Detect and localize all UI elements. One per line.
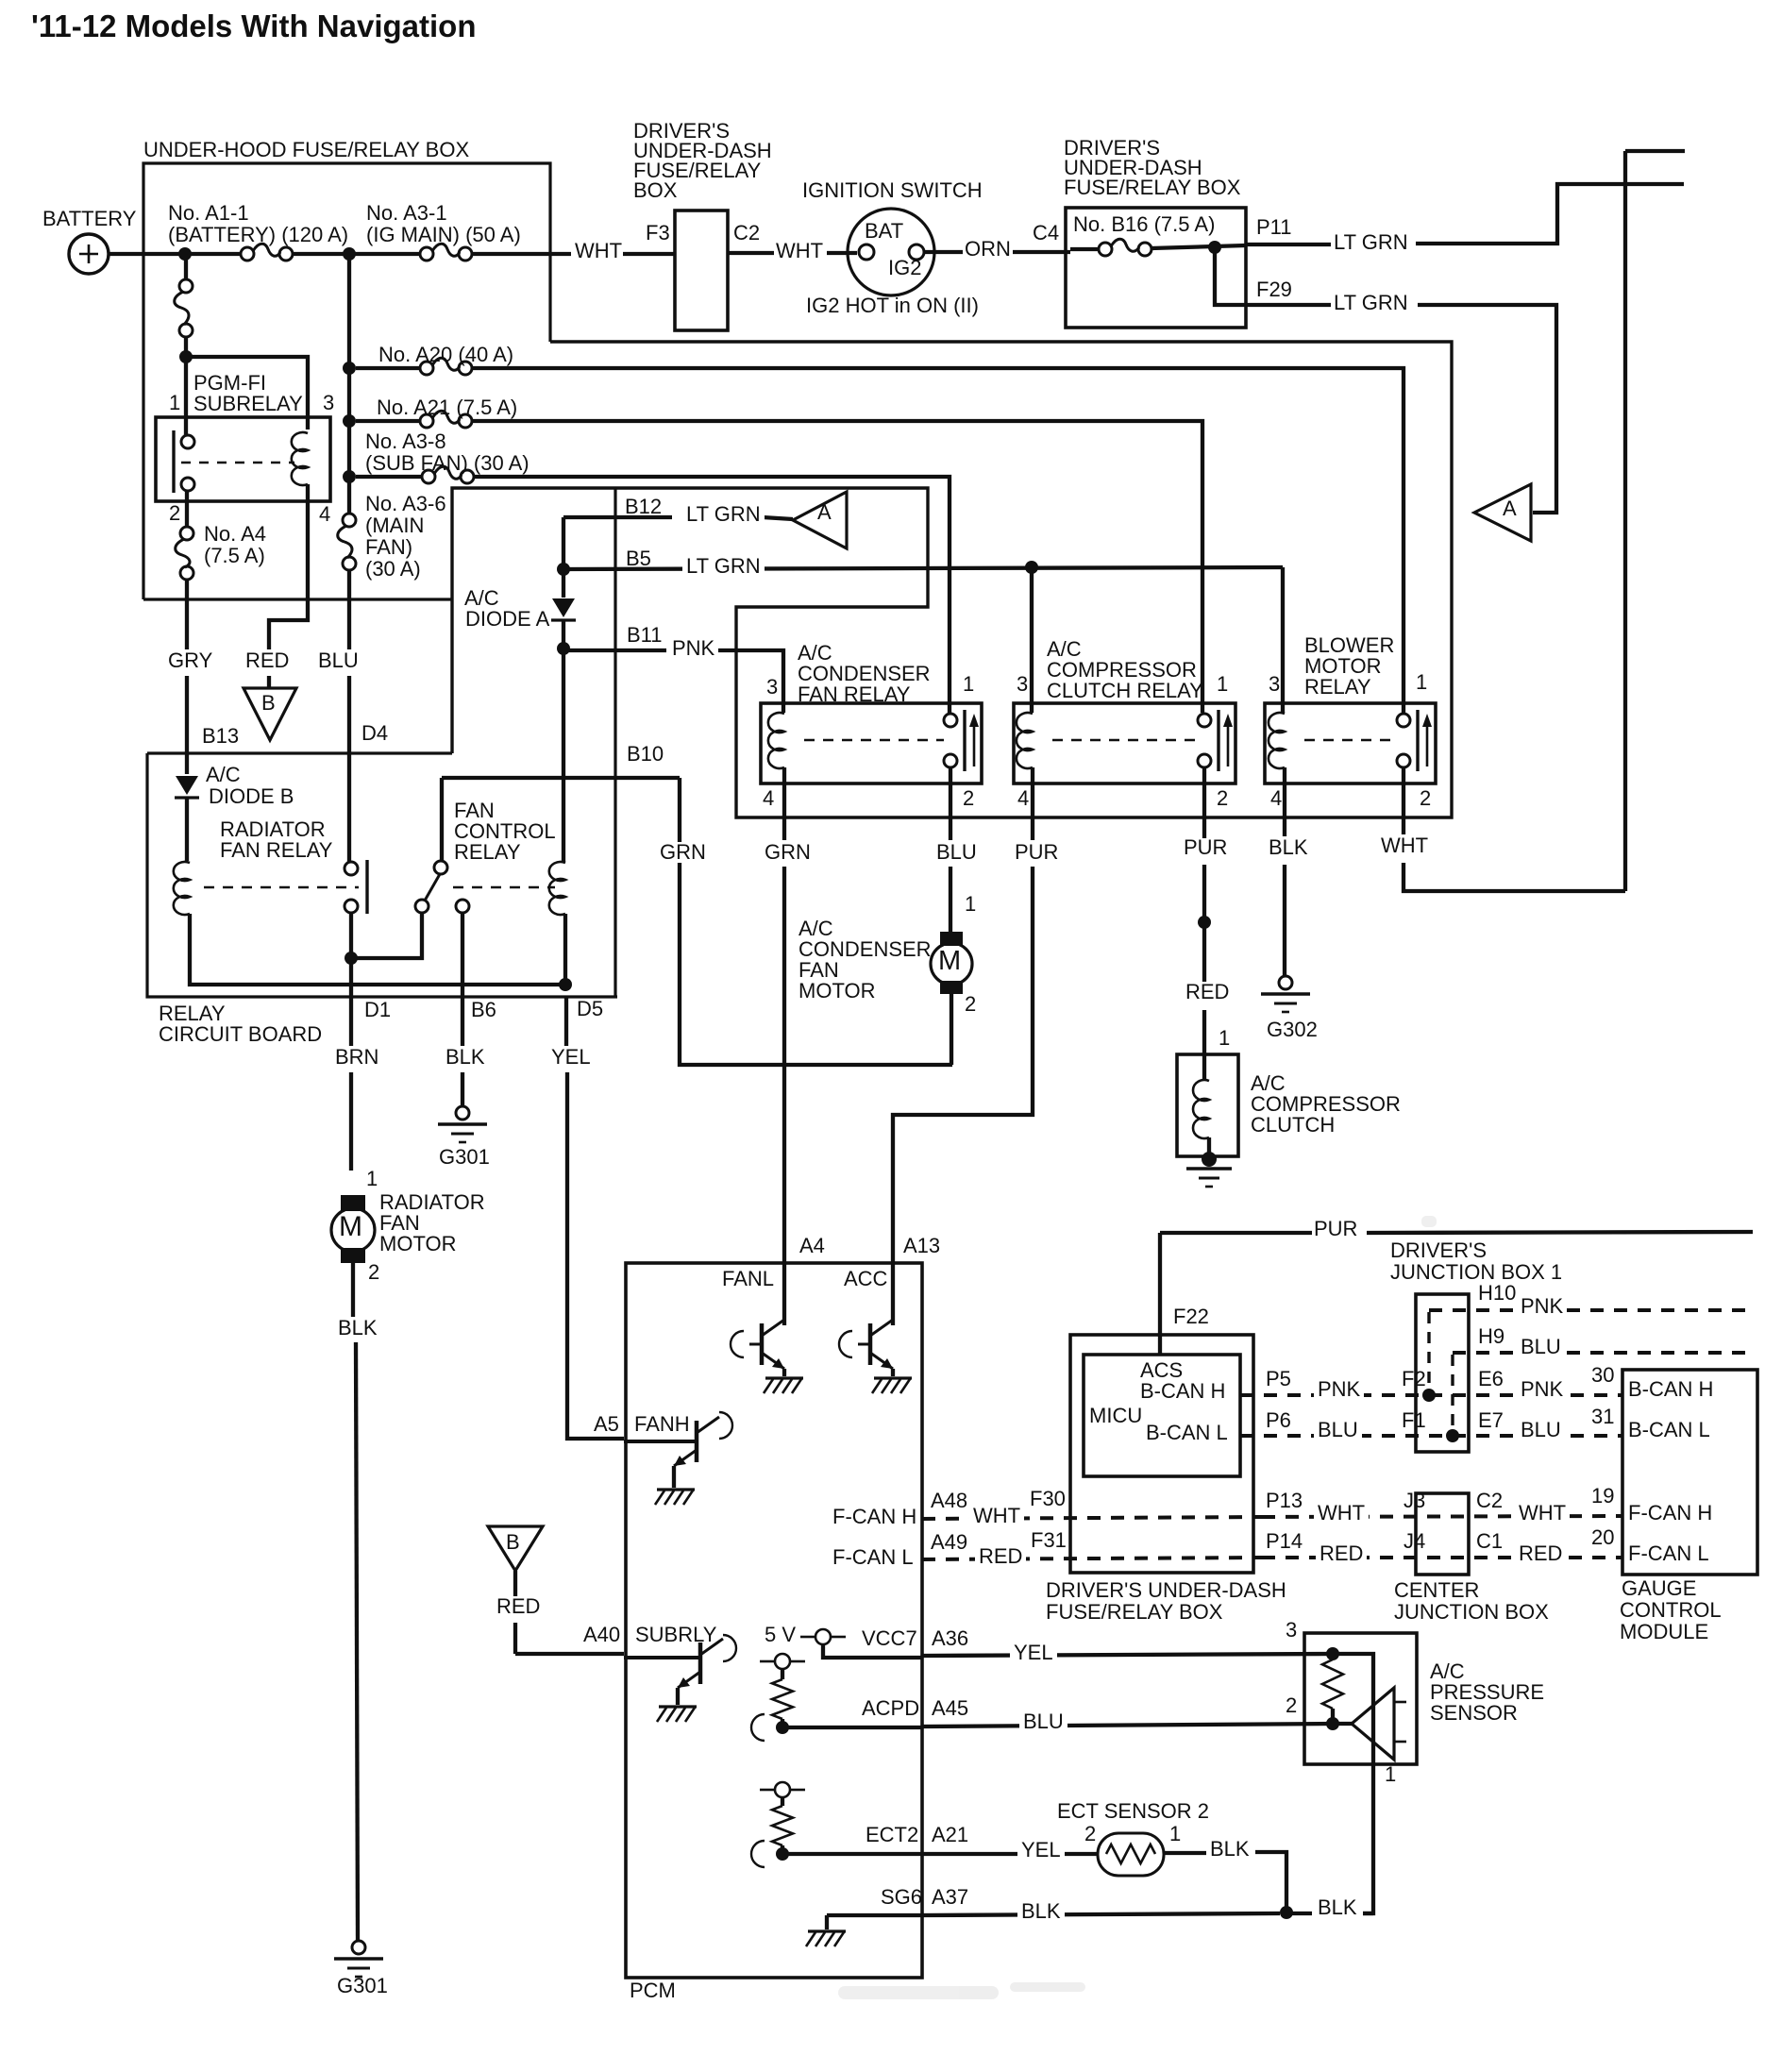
compressor clutch relay contact pin 1 terminal bbox=[1198, 714, 1211, 727]
wire resistor to ACPD node bbox=[781, 1719, 784, 1727]
fan control relay throw 2 terminal bbox=[456, 900, 469, 913]
label DRIVER'S JUNCTION BOX 1 bbox=[1390, 1240, 1487, 1261]
wire WHT to ignition switch BAT bbox=[827, 251, 857, 255]
A/C pressure sensor box bbox=[1304, 1633, 1417, 1764]
label wire color BLK (ECT) bbox=[1210, 1839, 1250, 1860]
label wire color GRY bbox=[168, 650, 212, 671]
wire B11 row left bbox=[563, 649, 666, 652]
fuse No. A4 (7.5 A) bbox=[180, 527, 193, 540]
label pin C4 bbox=[1033, 223, 1059, 244]
ground G301 (radiator fan motor) bbox=[352, 1941, 365, 1954]
wire main junction down fuse column upper bbox=[347, 254, 351, 368]
motor M1 radiator fan motor bbox=[341, 1195, 365, 1211]
wire B5 to blower motor relay pin 3 bbox=[1281, 567, 1285, 713]
transistor FANH bbox=[624, 1440, 697, 1443]
wire P11 to LT GRN bbox=[1246, 243, 1331, 246]
label pin A13 bbox=[903, 1236, 940, 1256]
label pin P11 bbox=[1256, 217, 1292, 238]
label F-CAN L (gauge) bbox=[1628, 1543, 1709, 1564]
wire LT GRN to connector A bbox=[763, 517, 793, 519]
label wire color YEL (D5) bbox=[551, 1047, 591, 1068]
subrelay contact terminal pin 1 bbox=[181, 435, 194, 448]
label ground G301 (bottom) bbox=[337, 1976, 388, 1996]
wire SG6 to PCM pin A37 bbox=[827, 1913, 922, 1917]
fuse No. A3-1 (IG MAIN)(50 A) bbox=[420, 247, 433, 261]
label B-CAN H (gauge) bbox=[1628, 1379, 1713, 1400]
label RELAY CIRCUIT BOARD bbox=[159, 1003, 226, 1024]
label wire color BLU (D4) bbox=[318, 650, 359, 671]
wire compressor relay pin 2 down (PUR) bbox=[1202, 767, 1206, 838]
label pin B11 bbox=[627, 625, 663, 646]
label pin D4 bbox=[361, 723, 388, 744]
label pin A48 bbox=[931, 1491, 967, 1511]
compressor clutch relay contact pin 2 terminal bbox=[1198, 754, 1211, 767]
label subrelay pin 2 bbox=[169, 503, 180, 524]
wire fuse A12 down bbox=[184, 337, 188, 357]
label GAUGE CONTROL MODULE bbox=[1622, 1578, 1696, 1599]
fuse No. B16 (7.5 A) bbox=[1099, 243, 1112, 256]
wire condenser relay pin 2 down (BLU) bbox=[949, 767, 952, 840]
ground G301 (fan control relay) bbox=[456, 1106, 469, 1120]
label pin P13 bbox=[1266, 1491, 1303, 1511]
label subrelay pin 3 bbox=[323, 393, 334, 413]
wire/box boundary chain from under-hood box around relays bbox=[452, 342, 1452, 817]
label wire color WHT (C2) bbox=[1515, 1503, 1570, 1524]
resistor ACPD pull-up bbox=[772, 1679, 793, 1719]
curl at ECT2 node bbox=[751, 1841, 765, 1867]
battery symbol with + terminal bbox=[69, 234, 109, 274]
relay circuit board left+bottom edge bbox=[147, 753, 617, 997]
junction ACPD node bbox=[776, 1721, 789, 1734]
junction B5 / diode A bbox=[557, 563, 570, 576]
label PCM bbox=[630, 1980, 676, 2001]
label IGNITION SWITCH bbox=[802, 180, 983, 201]
label fuse No. A4 bbox=[204, 524, 266, 545]
wire A20 row to fuse bbox=[356, 366, 420, 370]
wire 5V to PCM pin A36 VCC7 bbox=[823, 1644, 922, 1658]
wire PUR junction down (RED) bbox=[1202, 922, 1206, 982]
label M radiator fan motor bbox=[339, 1213, 362, 1241]
label under-hood fuse/relay box bbox=[143, 140, 469, 160]
label pin A45 bbox=[932, 1698, 968, 1719]
wire ECT sensor to BLK bbox=[1164, 1851, 1206, 1855]
label wire color LT GRN (P11) bbox=[1334, 232, 1408, 253]
transistor FANL bbox=[731, 1331, 744, 1357]
fuse No. A1-1 (BATTERY)(120 A) bbox=[241, 247, 254, 261]
label radiator fan motor pin 1 bbox=[366, 1169, 378, 1189]
label wire color YEL (ECT2) bbox=[1017, 1840, 1065, 1861]
label ECT2 bbox=[866, 1825, 918, 1845]
label blower relay pin 3 bbox=[1269, 674, 1280, 695]
radiator fan relay actuation dashed link bbox=[204, 886, 359, 889]
sensor element tick 1 bbox=[1394, 1701, 1406, 1704]
label pin B13 bbox=[202, 726, 239, 747]
label pin B10 bbox=[627, 744, 664, 765]
ignition terminal BAT bbox=[859, 244, 874, 260]
decorative faint scan smudge (not labelled element) bbox=[838, 1216, 1437, 1999]
wire dashed H9 BLU right bbox=[1567, 1351, 1753, 1355]
label wire color PUR (compressor coil) bbox=[1011, 842, 1062, 863]
label wire color PNK (P5) bbox=[1314, 1379, 1364, 1400]
label condenser relay pin 1 bbox=[963, 674, 974, 695]
wire radiator fan motor pin 2 (BLK) bbox=[351, 1263, 355, 1317]
wire B12 riser to B5 junction bbox=[562, 517, 565, 564]
label pin P5 bbox=[1266, 1369, 1291, 1390]
label wire color WHT (F-CAN H) bbox=[969, 1506, 1024, 1526]
label pin D5 bbox=[577, 999, 603, 1019]
compressor clutch relay contact bar with arrow bbox=[1217, 710, 1219, 771]
label IG2 terminal bbox=[888, 258, 921, 278]
label wire color BLK (SG6) bbox=[1017, 1901, 1065, 1922]
resistor inside ECT sensor 2 bbox=[1106, 1845, 1155, 1863]
wire LT GRN P11 route up and right bbox=[1416, 184, 1684, 244]
label wire color LT GRN (B5) bbox=[682, 556, 765, 577]
label wire color RED (C1) bbox=[1515, 1543, 1566, 1564]
wire BLU to condenser fan motor pin 1 bbox=[949, 867, 952, 932]
label 5 V bbox=[765, 1625, 796, 1645]
label wire color RED bbox=[245, 650, 289, 671]
label radiator fan motor pin 2 bbox=[368, 1262, 379, 1283]
wire B5 branch to compressor clutch relay pin 3 bbox=[1030, 567, 1034, 713]
label fuse No. A3-6 bbox=[365, 494, 446, 514]
ground FANH emitter bbox=[657, 1488, 695, 1491]
fuse No. A21 (7.5 A) bbox=[420, 414, 433, 428]
junction ECT2 node bbox=[776, 1847, 789, 1861]
diode A/C DIODE A symbol bbox=[562, 569, 565, 598]
condenser fan relay contact bar with arrow bbox=[963, 710, 966, 771]
compressor clutch relay coil bbox=[1017, 713, 1033, 768]
wire blower relay pin 4 down (BLK) bbox=[1283, 767, 1286, 836]
5V supply VCC7 bbox=[815, 1629, 831, 1644]
label condenser relay pin 2 bbox=[963, 788, 974, 809]
label wire color YEL (VCC7) bbox=[1010, 1642, 1057, 1663]
wire fuse column A21-A3-8 bbox=[347, 421, 351, 477]
condenser fan relay coil bbox=[768, 713, 784, 768]
ground SUBRLY emitter bbox=[659, 1705, 697, 1708]
wire connector B down bbox=[513, 1571, 517, 1596]
wire fuse A1-1 to fuse A3-1 bbox=[293, 252, 420, 256]
label wire color BLK (to pressure sensor) bbox=[1318, 1897, 1357, 1918]
label pin P14 bbox=[1266, 1531, 1303, 1552]
label wire color WHT (to F3) bbox=[575, 241, 622, 261]
junction pressure sensor pin 2 node bbox=[1326, 1717, 1339, 1730]
wire pin 1 hook to BLK bus bbox=[1363, 1899, 1373, 1913]
curl at ACPD node bbox=[751, 1714, 765, 1741]
label pin B12 bbox=[625, 497, 662, 517]
label wire color BRN bbox=[335, 1047, 378, 1068]
label BAT terminal bbox=[865, 221, 903, 242]
driver's under-dash fuse/relay box (bottom) bbox=[1070, 1335, 1253, 1573]
wire No. A21 to A/C compressor clutch relay pin 1 bbox=[472, 421, 1202, 713]
label pressure sensor pin 3 bbox=[1286, 1620, 1297, 1641]
label wire color BLU (ACPD) bbox=[1019, 1711, 1067, 1732]
wire D1 down (BRN) bbox=[349, 958, 353, 1046]
wire pressure sensor pin 1 down bbox=[1333, 1654, 1373, 1899]
label pin 31 bbox=[1591, 1407, 1614, 1427]
label blower relay pin 2 bbox=[1420, 788, 1431, 809]
label wire color LT GRN (B12) bbox=[682, 504, 765, 525]
label BATTERY bbox=[42, 209, 136, 229]
wire diode B to radiator fan relay coil bbox=[185, 798, 189, 861]
wire GRN to PCM pin A4 FANL bbox=[782, 867, 786, 1325]
ground FANL emitter bbox=[765, 1376, 803, 1379]
wire BRN to radiator fan motor pin 1 bbox=[349, 1072, 353, 1171]
wire fan control relay throw 2 to B6 bbox=[461, 913, 464, 997]
clutch ground terminal dot bbox=[1202, 1152, 1217, 1167]
sensor element tick 2 bbox=[1394, 1741, 1406, 1744]
under-hood fuse/relay box outline left+top+right bbox=[143, 163, 550, 599]
wire fuse A3-6 down (BLU) bbox=[347, 570, 351, 649]
wire BLU to D4 / radiator fan relay contact bbox=[347, 676, 351, 862]
relay A/C condenser fan relay box bbox=[761, 703, 982, 783]
label RADIATOR FAN RELAY bbox=[220, 819, 326, 840]
label pin A4 bbox=[799, 1236, 825, 1256]
label pin F30 bbox=[1030, 1489, 1066, 1509]
wire battery to fuse A1-1 bbox=[109, 252, 241, 256]
label pin P6 bbox=[1266, 1410, 1291, 1431]
label IG2 HOT in ON (II) bbox=[806, 295, 979, 316]
label A/C COMPRESSOR CLUTCH RELAY bbox=[1047, 639, 1082, 660]
subrelay actuation dashed link bbox=[181, 462, 294, 464]
wire dashed F-CAN L P14-J4-C1-20 bbox=[1262, 1556, 1622, 1559]
wire dashed H10 PNK right bbox=[1567, 1308, 1753, 1312]
wire resistor to ECT2 node bbox=[781, 1845, 784, 1854]
label pin A49 bbox=[931, 1532, 967, 1553]
ground G302 bbox=[1279, 976, 1292, 989]
label A/C DIODE A bbox=[464, 588, 499, 609]
wire YEL to PCM pin A5 FANH bbox=[567, 1072, 624, 1439]
wire BLK to ground G301 bbox=[356, 1342, 358, 1941]
connector triangle A (right) bbox=[1474, 484, 1531, 541]
wire FANL emitter to ground bbox=[782, 1369, 786, 1376]
wire B12 row left part bbox=[563, 515, 672, 519]
ground SG6 bbox=[808, 1929, 846, 1932]
label connector B letter (bottom) bbox=[506, 1532, 520, 1553]
junction bus / fan control relay coil bbox=[559, 978, 572, 991]
connector triangle B (bottom) bbox=[488, 1526, 543, 1571]
wire junction down to F29 bbox=[1215, 247, 1246, 305]
label ECT sensor pin 2 bbox=[1084, 1824, 1096, 1845]
wire B10 row bbox=[442, 776, 680, 780]
component ECT sensor 2 body bbox=[1098, 1833, 1164, 1876]
wire PUR line to page edge bbox=[1367, 1232, 1753, 1233]
wire subrelay pin 4 down (RED) bbox=[269, 484, 308, 649]
label pin A36 bbox=[932, 1628, 968, 1649]
label wire color GRN (condenser coil) bbox=[761, 842, 815, 863]
label driver's under-dash fuse/relay box (right) bbox=[1064, 138, 1160, 159]
wire GRY to B13 / diode B bbox=[185, 676, 189, 774]
label ground G302 bbox=[1267, 1019, 1318, 1040]
junction No. A21 branch bbox=[343, 414, 356, 428]
fan control relay throw 1 terminal bbox=[415, 900, 429, 913]
wire BLK hook to pressure sensor pin 1 bbox=[1363, 1912, 1373, 1915]
ground ACC emitter bbox=[874, 1376, 912, 1379]
label F-CAN H bbox=[832, 1507, 916, 1527]
label condenser fan motor pin 2 bbox=[965, 994, 976, 1015]
label A/C COMPRESSOR CLUTCH bbox=[1251, 1073, 1286, 1094]
wire RED to connector B bbox=[267, 676, 271, 688]
wire dashed H9 BLU left bbox=[1453, 1351, 1518, 1355]
ignition switch circle bbox=[848, 209, 934, 295]
label pressure sensor pin 1 bbox=[1385, 1764, 1396, 1785]
wire BLK to ground G302 bbox=[1283, 865, 1286, 976]
wire dashed H10 PNK left bbox=[1429, 1308, 1518, 1312]
label pin B6 bbox=[471, 1000, 496, 1020]
fan control relay common terminal bbox=[434, 861, 447, 874]
wire dashed F-CAN H P13-J3-C2-19 bbox=[1262, 1516, 1622, 1517]
wire dashed B-CAN H P5-E6-30 bbox=[1240, 1393, 1622, 1397]
label A/C CONDENSER FAN RELAY bbox=[798, 643, 832, 664]
label clutch pin 1 bbox=[1219, 1028, 1230, 1049]
resistor ECT2 pull-up bbox=[772, 1806, 793, 1845]
wire BLK to SG6 bus junction bbox=[1255, 1852, 1286, 1912]
blower motor relay dashed actuation bbox=[1304, 739, 1397, 742]
subrelay contact bar bbox=[172, 430, 175, 493]
wire condenser fan motor pin 2 down bbox=[950, 994, 953, 1065]
wire dashed B-CAN L P6-E7-31 bbox=[1240, 1434, 1622, 1438]
label compressor relay pin 3 bbox=[1017, 674, 1028, 695]
wire dashed F-CAN H WHT bbox=[922, 1517, 1262, 1519]
wire fuse B16 to P11 bbox=[1151, 245, 1246, 248]
label pin B5 bbox=[626, 548, 651, 569]
relay A/C compressor clutch relay box bbox=[1014, 703, 1235, 783]
wire dashed inside junction box 1 (PNK) bbox=[1427, 1312, 1430, 1391]
wire SUBRLY emitter to ground bbox=[676, 1688, 680, 1705]
resistor in pressure sensor bbox=[1322, 1659, 1343, 1709]
wire LT GRN F29 route down to connector A bbox=[1418, 305, 1556, 513]
label A/C PRESSURE SENSOR bbox=[1430, 1661, 1465, 1682]
wire BLK bus to label bbox=[1286, 1912, 1312, 1915]
label ECT sensor pin 1 bbox=[1169, 1824, 1181, 1845]
relay circuit board right edge riser with pins B12/B5/B11/B10 bbox=[614, 488, 616, 997]
wire B10/GRN down and across to condenser fan motor pin 2 bbox=[680, 778, 952, 1065]
wire 5V to resistor bbox=[781, 1669, 784, 1679]
wire B6 down (BLK) bbox=[461, 997, 464, 1046]
wire fan control relay throw 1 to D1 junction bbox=[351, 913, 422, 958]
under-hood fuse/relay box bottom edge bbox=[143, 598, 452, 600]
fuse No. A12 (15 A) bbox=[179, 279, 193, 293]
wire resistor to pin 2 node bbox=[1331, 1709, 1335, 1724]
wire A12 junction to subrelay pin 3 coil bbox=[186, 357, 308, 430]
label pin F22 bbox=[1173, 1306, 1209, 1327]
label wire color RED (SUBRLY) bbox=[496, 1596, 540, 1617]
junction BLU splice in junction box 1 bbox=[1446, 1429, 1459, 1442]
label wire color BLK (B6) bbox=[445, 1047, 485, 1068]
fuse No. A20 (40 A) bbox=[420, 362, 433, 375]
wire A3-8 row to fuse bbox=[356, 475, 422, 479]
component A/C compressor clutch box bbox=[1177, 1054, 1238, 1156]
label pin E6 bbox=[1478, 1369, 1504, 1390]
label pin H10 bbox=[1478, 1283, 1516, 1304]
label condenser relay pin 3 bbox=[766, 677, 778, 698]
junction A12 to subrelay pins 1 and 3 bbox=[179, 350, 193, 363]
MICU/ACS box bbox=[1084, 1355, 1240, 1476]
blower motor relay contact bar with arrow bbox=[1416, 710, 1419, 771]
A/C compressor clutch coil bbox=[1193, 1080, 1209, 1138]
label pin F31 bbox=[1031, 1530, 1067, 1551]
diode A/C DIODE B symbol bbox=[176, 776, 198, 795]
label ground G301 (relay) bbox=[439, 1147, 490, 1168]
label PGM-FI SUBRELAY bbox=[193, 373, 266, 394]
label pin J3 bbox=[1404, 1491, 1425, 1511]
label CENTER JUNCTION BOX bbox=[1394, 1580, 1479, 1601]
5V supply ECT2 pull-up bbox=[775, 1782, 790, 1797]
label pin 19 bbox=[1591, 1486, 1614, 1507]
label pin H9 bbox=[1478, 1326, 1504, 1347]
junction battery feed / No. A12 branch bbox=[178, 247, 192, 261]
junction main feed / fuse column bbox=[343, 247, 356, 261]
wire RED to A40 row bbox=[513, 1623, 517, 1654]
blower motor relay contact pin 1 terminal bbox=[1397, 714, 1410, 727]
label wire color LT GRN (F29) bbox=[1334, 293, 1408, 313]
condenser fan relay contact pin 1 terminal bbox=[944, 714, 957, 727]
wire C2 to WHT bbox=[728, 251, 774, 255]
wire radiator relay contact to D1 junction bbox=[349, 913, 353, 958]
wire A37 BLK out bbox=[922, 1913, 1280, 1915]
label wire color BLU (P6) bbox=[1314, 1420, 1362, 1440]
center junction box bbox=[1416, 1493, 1469, 1575]
wire clutch coil to ground bbox=[1207, 1137, 1211, 1154]
wire F29 to LT GRN bbox=[1246, 303, 1331, 307]
label pin J4 bbox=[1404, 1531, 1425, 1552]
radiator fan relay contact pin D4 terminal bbox=[345, 862, 358, 875]
label subrelay pin 1 bbox=[169, 393, 180, 413]
motor M2 A/C condenser fan motor bbox=[940, 932, 963, 946]
wire WHT to right-side vertical bbox=[1404, 863, 1625, 891]
label pin E7 bbox=[1478, 1410, 1504, 1431]
label A/C CONDENSER FAN MOTOR bbox=[798, 918, 833, 939]
relay U1 PGM-FI subrelay box bbox=[156, 417, 330, 501]
label M condenser fan motor bbox=[938, 948, 961, 975]
junction PNK splice in junction box 1 bbox=[1422, 1389, 1436, 1402]
wire ACC emitter to ground bbox=[891, 1369, 895, 1376]
label pin A40 bbox=[583, 1625, 620, 1645]
wire PUR to junction bbox=[1202, 865, 1206, 920]
label condenser fan motor pin 1 bbox=[965, 894, 976, 915]
label wire color BLU (H9) bbox=[1517, 1337, 1565, 1357]
label wire color PUR (F22) bbox=[1314, 1219, 1357, 1239]
wire WHT to F3 connector bbox=[623, 252, 675, 256]
radiator fan relay contact bar bbox=[365, 860, 368, 914]
wire C4 to fuse B16 bbox=[1070, 247, 1099, 251]
label pin D1 bbox=[364, 1000, 391, 1020]
transistor SUBRLY bbox=[624, 1656, 700, 1659]
radiator fan relay contact lower terminal bbox=[345, 900, 358, 913]
wire ORN to C4 bbox=[1013, 250, 1070, 254]
label fuse No. A21 bbox=[377, 397, 517, 418]
driver's junction box 1 bbox=[1416, 1294, 1469, 1452]
label wire color PUR (clutch) bbox=[1184, 837, 1227, 858]
connector box F3/C2 (under-dash) bbox=[675, 211, 728, 330]
wire junction to fuse A12 bbox=[184, 254, 188, 279]
label VCC7 bbox=[862, 1628, 917, 1649]
title text bbox=[31, 10, 476, 42]
ground at A/C compressor clutch bbox=[1186, 1167, 1232, 1170]
wire PUR down to MICU pin F22 bbox=[1158, 1233, 1162, 1354]
label wire color BLK (radiator motor) bbox=[338, 1318, 378, 1339]
wire pin 2 node to sensor element bbox=[1333, 1722, 1352, 1726]
wire fuse column A3-8 to fuse A3-6 bbox=[347, 477, 351, 514]
label SUBRLY bbox=[635, 1625, 716, 1645]
wire SG6 to ground bbox=[825, 1915, 829, 1929]
label connector B letter bbox=[261, 693, 276, 714]
subrelay contact terminal pin 2 bbox=[181, 478, 194, 491]
wire No. A20 to blower motor relay pin 1 bbox=[472, 368, 1404, 714]
fan control relay coil bbox=[549, 862, 565, 915]
label compressor relay pin 2 bbox=[1217, 788, 1228, 809]
junction B5 to compressor clutch relay coil bbox=[1025, 561, 1038, 574]
label B-CAN L (MICU) bbox=[1146, 1423, 1228, 1443]
